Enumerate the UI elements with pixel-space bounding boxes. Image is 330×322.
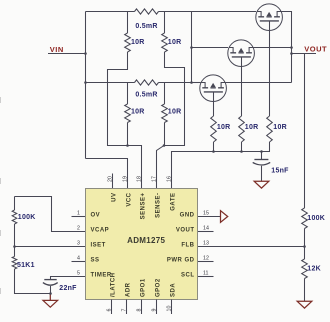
wire pin14 stub	[198, 231, 214, 233]
svg-text:SENSE+: SENSE+	[140, 193, 146, 220]
transistor Q1 (N-channel MOSFET)	[256, 4, 283, 31]
svg-text:20: 20	[107, 176, 113, 182]
svg-text:VCAP: VCAP	[91, 228, 110, 234]
resistor 12K right	[302, 259, 308, 279]
wire pin2 VCAP loop	[15, 197, 86, 232]
svg-text:SENSE-: SENSE-	[155, 193, 161, 218]
svg-text:15nF: 15nF	[271, 168, 289, 175]
resistor sense1 0.5mR	[135, 9, 159, 14]
wire Q2 source	[253, 47, 291, 49]
wire pin5 TIMER	[51, 277, 86, 280]
junction dots	[84, 52, 87, 55]
svg-text:3: 3	[77, 241, 80, 247]
ground bottom left	[49, 294, 51, 301]
svg-text:12: 12	[203, 256, 209, 262]
svg-text:OV: OV	[91, 213, 101, 219]
svg-text:0.5mR: 0.5mR	[135, 92, 157, 99]
svg-text:13: 13	[203, 241, 209, 247]
svg-text:8: 8	[136, 309, 142, 312]
svg-text:9: 9	[151, 309, 157, 312]
resistor 100K right	[302, 208, 308, 229]
svg-text:5: 5	[77, 271, 80, 277]
resistor gate 10R #2	[241, 66, 243, 116]
svg-text:2: 2	[77, 226, 80, 232]
svg-text:VIN: VIN	[50, 45, 64, 54]
wire VCC feed	[86, 159, 128, 189]
IC bottom pin stubs 6-10	[111, 300, 113, 315]
svg-text:100K: 100K	[18, 214, 36, 221]
wire FLB to feedback divider	[198, 246, 305, 248]
wire VIN vertical rail	[85, 12, 87, 159]
wire Q3 drain	[192, 82, 201, 84]
svg-text:VOUT: VOUT	[176, 228, 195, 234]
ground under 15nF	[254, 181, 269, 188]
svg-text:FLB: FLB	[181, 243, 194, 249]
svg-text:12K: 12K	[307, 266, 321, 273]
svg-text:18: 18	[136, 176, 142, 182]
svg-text:PWR GD: PWR GD	[167, 258, 195, 264]
svg-text:10R: 10R	[131, 39, 145, 46]
resistor 10R branch2 left	[127, 83, 129, 105]
resistor gate 10R #1	[213, 101, 215, 116]
svg-text:16: 16	[166, 176, 172, 182]
svg-text:15: 15	[203, 211, 209, 217]
resistor gate 10R #3	[269, 30, 271, 116]
svg-text:UV: UV	[111, 193, 117, 202]
svg-text:SDA: SDA	[170, 283, 176, 297]
svg-text:10R: 10R	[217, 124, 231, 131]
capacitor 15nF	[261, 152, 263, 160]
wire gate bus	[172, 152, 271, 189]
transistor Q3 (N-channel MOSFET)	[200, 75, 227, 102]
svg-text:ADR: ADR	[125, 282, 131, 297]
wire pin3 ISET	[15, 246, 86, 248]
wire pin20 stub	[112, 174, 114, 189]
svg-text:GATE: GATE	[170, 193, 176, 211]
svg-text:51K1: 51K1	[17, 262, 35, 269]
svg-text:10R: 10R	[245, 124, 259, 131]
node VIN lead wire	[48, 53, 86, 55]
wire drain riser	[191, 12, 193, 83]
svg-text:7: 7	[121, 309, 127, 312]
ground bottom right	[297, 301, 312, 308]
svg-text:VCC: VCC	[126, 192, 132, 206]
capacitor 22nF	[44, 279, 56, 281]
svg-text:6: 6	[106, 309, 112, 312]
svg-text:10R: 10R	[273, 124, 287, 131]
resistor sense2 0.5mR	[135, 80, 159, 85]
svg-text:SS: SS	[91, 258, 100, 264]
resistor 10R branch1 right	[164, 12, 166, 34]
svg-text:SCL: SCL	[181, 273, 195, 279]
svg-text:GND: GND	[180, 213, 195, 219]
svg-text:ADM1275: ADM1275	[127, 236, 165, 245]
svg-text:ISET: ISET	[91, 243, 106, 249]
wire Q1 source to VOUT riser	[281, 12, 291, 83]
wire pin4 stub	[72, 261, 86, 263]
wire pin15 GND lead	[198, 216, 221, 218]
svg-text:/LATCH: /LATCH	[110, 272, 116, 297]
resistor 51K1	[12, 257, 17, 270]
wire pin12 stub	[198, 261, 214, 263]
svg-text:10: 10	[166, 306, 172, 312]
wire pin11 stub	[198, 276, 214, 278]
wire Q3 source bus	[225, 82, 291, 84]
svg-text:GPO2: GPO2	[155, 278, 161, 297]
scan artifacts left edge	[0, 97, 1, 294]
svg-text:22nF: 22nF	[59, 285, 77, 292]
svg-text:11: 11	[203, 271, 209, 277]
svg-text:4: 4	[77, 256, 80, 262]
svg-text:TIMER: TIMER	[91, 273, 112, 279]
svg-text:14: 14	[203, 226, 209, 232]
svg-text:1: 1	[77, 211, 80, 217]
svg-text:10R: 10R	[168, 109, 182, 116]
svg-text:VOUT: VOUT	[304, 44, 327, 53]
wire branch2 rail	[86, 82, 192, 84]
svg-text:100K: 100K	[307, 215, 325, 222]
wire VOUT tap	[292, 54, 317, 209]
transistor Q2 (N-channel MOSFET)	[228, 40, 255, 67]
resistor 10R branch1 left	[127, 12, 129, 34]
wire top drain rail	[86, 11, 257, 13]
svg-text:19: 19	[122, 176, 128, 182]
resistor 100K left	[14, 197, 16, 211]
svg-text:17: 17	[151, 176, 157, 182]
resistor 10R branch2 right	[164, 83, 166, 105]
ground right of pin15	[221, 211, 228, 223]
svg-text:10R: 10R	[131, 109, 145, 116]
svg-text:GPO1: GPO1	[140, 278, 146, 297]
wire Q2 drain	[192, 47, 229, 49]
IC U1 ADM1275 hot-swap controller	[86, 189, 198, 300]
wire pin1 stub	[72, 216, 86, 218]
svg-text:0.5mR: 0.5mR	[135, 23, 157, 30]
svg-text:10R: 10R	[168, 39, 182, 46]
